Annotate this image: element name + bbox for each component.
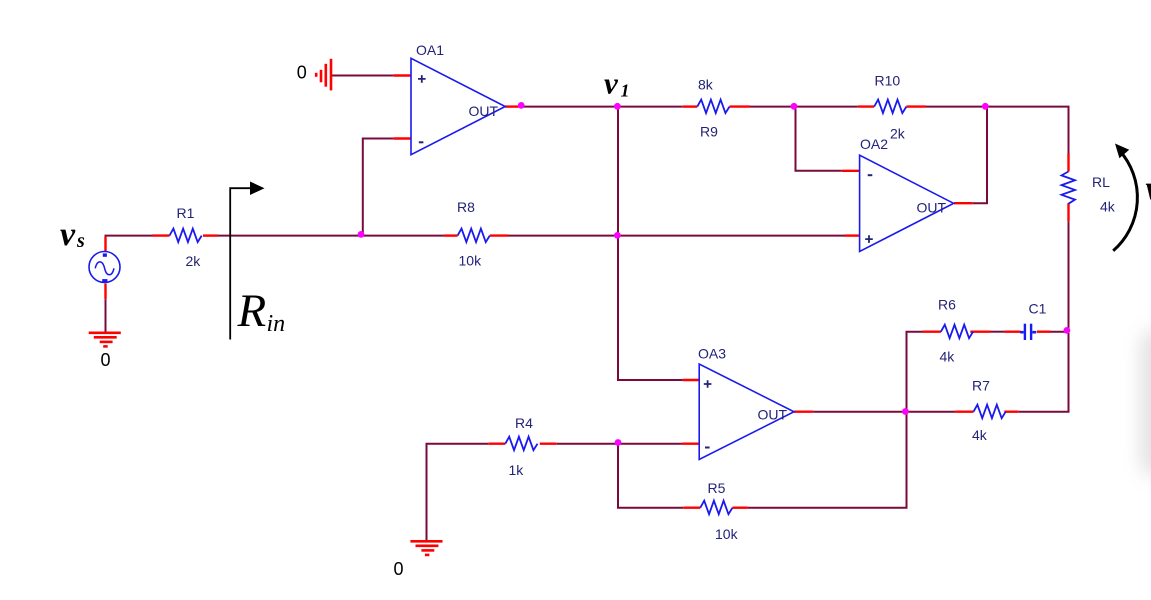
pin stub R6 left xyxy=(923,331,941,333)
svg-text:4k: 4k xyxy=(940,349,956,365)
pin stub OA3 out xyxy=(794,411,813,413)
svg-text:0: 0 xyxy=(101,350,111,370)
pin stub OA1 plus xyxy=(393,74,411,76)
pin stub source top xyxy=(104,237,106,252)
wire R6 corner xyxy=(906,331,923,333)
pin stub RL bottom xyxy=(1067,203,1069,221)
svg-text:R8: R8 xyxy=(457,199,475,215)
op-amp U OA2 xyxy=(860,155,954,251)
pin stub OA3 minus xyxy=(682,443,699,445)
pin stub R7 left xyxy=(955,411,973,413)
junction dot main wire v1 branch xyxy=(614,232,621,239)
wire vs top horizontal xyxy=(105,235,153,237)
svg-text:10k: 10k xyxy=(459,253,483,269)
svg-text:R6: R6 xyxy=(938,297,956,313)
wire OA2 feedback vertical xyxy=(973,107,987,204)
right edge soft shadow xyxy=(1140,328,1151,478)
svg-text:OUT: OUT xyxy=(469,103,499,119)
source VS minus dash xyxy=(102,279,107,282)
pin stub R8 left xyxy=(444,234,458,236)
junction dot R4 OA3 minus xyxy=(615,439,622,446)
svg-text:R10: R10 xyxy=(875,73,901,89)
resistor R4 xyxy=(505,437,537,451)
wire R5 right xyxy=(748,507,908,509)
junction dot R10 right xyxy=(982,103,989,110)
svg-text:s: s xyxy=(76,230,85,252)
pin stub R9 right xyxy=(730,105,751,107)
svg-text:v: v xyxy=(60,216,76,253)
curved arrow at RL xyxy=(1113,151,1137,251)
pin stub R7 right xyxy=(1004,411,1018,413)
wire OA1 minus vertical xyxy=(363,139,394,236)
pin stub R4 left xyxy=(488,443,505,445)
junction dot C1 RL xyxy=(1064,327,1071,334)
svg-text:OA1: OA1 xyxy=(416,42,444,58)
svg-text:2k: 2k xyxy=(890,126,906,142)
Rin arrow head xyxy=(250,182,265,196)
svg-text:1: 1 xyxy=(621,81,630,101)
pin stub R10 right xyxy=(906,105,926,107)
ground at source xyxy=(89,333,121,347)
op-amp U OA1 xyxy=(411,58,505,154)
svg-text:OA3: OA3 xyxy=(698,346,726,362)
Rin measurement line xyxy=(230,187,250,339)
svg-text:R1: R1 xyxy=(177,205,195,221)
resistor R5 xyxy=(700,501,732,515)
resistor R6 xyxy=(941,325,973,339)
junction dot OA1 out xyxy=(518,102,525,109)
svg-text:4k: 4k xyxy=(1100,199,1116,215)
source VS plus dash xyxy=(103,253,107,256)
pin stub C1 right xyxy=(1037,331,1051,333)
wire OA2 minus loop xyxy=(796,107,842,171)
svg-text:OUT: OUT xyxy=(917,200,947,216)
junction dot R9 R10 OA2 minus xyxy=(791,103,798,110)
wire C1 to RL net xyxy=(1050,331,1068,333)
svg-text:v: v xyxy=(1146,170,1151,207)
pin stub R10 left xyxy=(858,105,874,107)
resistor RL vertical xyxy=(1062,172,1076,204)
wire R6 to C1 xyxy=(991,331,1005,333)
wire source bottom to ground xyxy=(105,299,107,332)
svg-text:10k: 10k xyxy=(715,526,739,542)
wire R8 to OA2+ xyxy=(509,235,846,237)
wire R4 node down to R5 xyxy=(617,444,619,508)
resistor R7 xyxy=(974,405,1006,419)
pin stub OA3 plus xyxy=(683,379,700,381)
wire R10 to top right corner xyxy=(926,107,1069,154)
pin stub R6 right xyxy=(970,331,990,333)
ground sideways at OA1 plus xyxy=(316,59,331,91)
svg-text:0: 0 xyxy=(394,559,404,579)
pin stub OA1 minus xyxy=(393,137,411,139)
resistor R9 xyxy=(697,100,729,114)
svg-text:0: 0 xyxy=(297,63,307,83)
pin stub R5 left xyxy=(683,507,700,509)
svg-text:R: R xyxy=(237,285,267,337)
pin stub R4 right xyxy=(540,443,557,445)
capacitor C1 xyxy=(1020,324,1036,340)
wire main horizontal mid xyxy=(218,235,444,237)
pin stub OA2 plus xyxy=(845,234,860,236)
junction dot OA3 out xyxy=(902,408,909,415)
wire R5 left xyxy=(617,507,683,509)
resistor R8 xyxy=(458,229,490,243)
svg-text:R9: R9 xyxy=(700,124,718,140)
svg-text:R4: R4 xyxy=(515,415,533,431)
pin stub R9 left xyxy=(683,105,698,107)
wire OA1 plus from ground xyxy=(332,75,394,77)
ground at R4 xyxy=(410,541,442,555)
svg-text:in: in xyxy=(267,311,286,337)
wire v1 vertical down to OA3 plus xyxy=(618,107,683,380)
pin stub OA1 out xyxy=(505,105,518,107)
wire OA1 out to R9 xyxy=(519,106,683,108)
op-amp U OA3 xyxy=(699,364,794,460)
wire R7 right corner xyxy=(1019,411,1070,413)
pin stub R1 right xyxy=(203,234,218,236)
svg-text:R7: R7 xyxy=(972,378,990,394)
pin stub RL top xyxy=(1067,154,1069,172)
svg-text:R5: R5 xyxy=(708,480,726,496)
svg-text:OUT: OUT xyxy=(758,407,788,423)
wire RL bottom vertical xyxy=(1068,221,1070,411)
op-amp OA2 plus mark xyxy=(865,235,873,243)
wire R6 R5 vertical xyxy=(906,332,908,508)
svg-text:RL: RL xyxy=(1092,174,1110,190)
op-amp OA2 minus mark xyxy=(868,174,873,176)
wire R4 to OA3 minus xyxy=(557,443,682,445)
svg-text:4k: 4k xyxy=(972,427,988,443)
wire OA3 out horizontal xyxy=(813,411,955,413)
pin stub R8 right xyxy=(490,234,509,236)
svg-text:2k: 2k xyxy=(186,253,202,269)
wire R4 left to ground xyxy=(427,444,489,540)
junction dot node v1 xyxy=(614,103,621,110)
resistor R10 xyxy=(874,100,906,114)
pin stub source bottom xyxy=(104,284,106,300)
svg-text:8k: 8k xyxy=(698,77,714,93)
svg-text:1k: 1k xyxy=(509,462,525,478)
junction dot OA1 minus main wire xyxy=(358,231,365,238)
pin stub R5 right xyxy=(733,507,748,509)
wire R9 to R10 xyxy=(750,106,858,108)
pin stub C1 left xyxy=(1005,331,1021,333)
source VS circle xyxy=(89,252,120,283)
source VS sine xyxy=(95,262,114,275)
resistor R1 xyxy=(170,229,202,243)
pin stub OA2 out xyxy=(954,202,973,204)
svg-text:OA2: OA2 xyxy=(860,136,888,152)
op-amp OA1 plus mark xyxy=(418,75,426,83)
op-amp OA1 minus mark xyxy=(419,141,424,143)
pin stub R1 left xyxy=(153,234,170,236)
op-amp OA3 plus mark xyxy=(704,380,712,388)
op-amp OA3 minus mark xyxy=(705,447,710,449)
curved arrow head xyxy=(1115,144,1129,159)
svg-text:v: v xyxy=(604,66,619,101)
svg-text:C1: C1 xyxy=(1029,301,1047,317)
pin stub OA2 minus xyxy=(842,170,860,172)
